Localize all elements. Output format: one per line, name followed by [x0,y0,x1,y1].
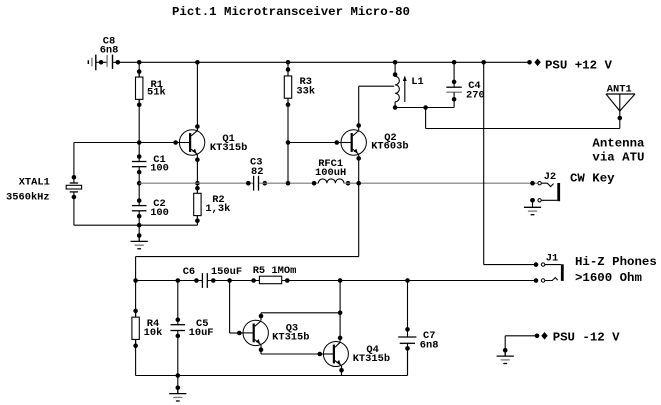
label L1 [411,76,423,88]
capacitor C4 [446,87,462,107]
wire mid line left [139,182,253,184]
label Q3 [272,323,309,344]
label C7 [420,330,439,351]
wire R3 to Q2 base node [287,98,289,183]
junction Q1em-mid [195,181,200,186]
capacitor C7 [398,337,416,376]
wire Q3 collector [259,313,340,321]
svg-text:6n8: 6n8 [100,45,119,57]
connector J1 [534,262,564,283]
wire Q2em to audio top [136,257,359,318]
resistor R2 [194,186,201,223]
ground under C2 [131,233,148,249]
svg-text:100: 100 [150,163,169,175]
wire L1 bottom to C4 [395,105,454,110]
label R3 [296,76,315,98]
wire Q2 collector to L1 tap [356,86,394,130]
wire mid to R2 [196,183,198,193]
resistor R1 [136,69,143,107]
wire audio line to Q4 collector [338,281,343,342]
junction C7 branch [405,278,410,283]
svg-text:C6: C6 [183,266,195,278]
label ANT1 [607,84,632,96]
crystal XTAL1 [66,175,81,225]
label R5 1MOm [253,265,297,277]
svg-text:L1: L1 [411,76,423,88]
wire C1-C2 [138,167,140,206]
label RFC1 [315,158,346,179]
junction R4-audio line [133,278,138,283]
capacitor C6 [194,273,216,288]
transistor Q4 [323,342,348,367]
svg-text:via ATU: via ATU [592,151,644,165]
svg-text:Pict.1 Microtransceiver Micro-: Pict.1 Microtransceiver Micro-80 [172,5,410,19]
svg-text:3560kHz: 3560kHz [6,192,50,204]
wire audio line left [136,280,203,282]
svg-text:1,3k: 1,3k [205,203,230,215]
transistor Q1 [179,130,204,155]
wire C2 to ground [138,211,140,241]
wire +12V rail [113,61,529,63]
ground bottom [169,385,186,401]
svg-text:KT315b: KT315b [272,332,309,344]
label Antenna via ATU [592,137,645,165]
wire mid line C3-RFC1 [259,182,318,184]
wire rail to C4 [452,62,457,87]
junction R3line-mid [286,181,291,186]
label C5 [189,318,214,339]
junction Q2em-mid [356,181,361,186]
label >1600 Ohm [575,271,642,285]
capacitor C1 [132,154,147,174]
wire R2 to loop [196,216,198,226]
ground under J2 [524,198,541,215]
wire PSU -12V [505,336,535,356]
junction rail-L1 [393,60,398,65]
label J1 [546,252,558,264]
inductor L1 [393,76,400,109]
svg-text:KT315b: KT315b [353,353,390,365]
svg-text:100: 100 [150,207,169,219]
wire bottom right corner [407,348,409,375]
svg-text:J1: J1 [546,252,558,264]
wire Q1 emitter [195,155,200,184]
svg-text:82: 82 [251,166,263,178]
svg-text:10uF: 10uF [189,327,214,339]
wire C7 branch [405,281,410,338]
svg-text:KT315b: KT315b [210,142,247,154]
svg-text:PSU +12 V: PSU +12 V [545,59,612,73]
svg-text:CW Key: CW Key [570,171,615,185]
label C6 [183,266,195,278]
wire rail to L1 [393,62,398,77]
label C8 [100,36,119,57]
title [172,5,410,19]
label C2 [150,198,169,219]
svg-text:Antenna: Antenna [592,137,645,151]
svg-text:270: 270 [466,89,485,101]
wire C6 line to Q3 base [230,281,243,336]
label Q1 [210,133,247,154]
junction rail-J1 feed [481,60,486,65]
label C4 [466,80,485,101]
svg-text:10k: 10k [144,327,163,339]
junction rail-Q1 [195,60,200,65]
resistor R3 [284,67,291,107]
label CW Key [570,171,615,185]
wire rail to R1 [138,62,140,77]
wire R1 to base node [138,99,140,161]
label 150uF [211,266,242,278]
capacitor C3 [246,176,267,191]
svg-text:150uF: 150uF [211,266,242,278]
label J2 [544,171,556,183]
svg-text:PSU -12 V: PSU -12 V [553,330,620,344]
label XTAL1 [6,177,50,204]
junction Q3 base branch [227,278,232,283]
wire rail to R3 [287,62,289,76]
label PSU +12 V [545,59,612,73]
svg-text:KT603b: KT603b [371,141,408,153]
inductor RFC1 [312,179,351,186]
svg-text:51k: 51k [147,87,166,99]
wire C5 branch [177,281,179,325]
svg-text:100uH: 100uH [315,167,346,179]
junction C5 branch [176,278,181,283]
svg-text:33k: 33k [296,85,315,97]
node base junction [137,140,142,145]
junction rail-R3 [286,60,291,65]
wire antenna feed [426,108,620,129]
antenna ANT1 [606,94,635,120]
wire bottom ground stub [177,376,179,394]
label Q4 [353,344,390,365]
svg-text:R5 1MOm: R5 1MOm [253,265,297,277]
capacitor C2 [132,198,147,218]
junction rail-C4 [452,60,457,65]
label R1 [147,79,166,99]
junction C2-loop [137,223,142,228]
wire mid line RFC1-J2 [344,182,538,184]
transistor Q2 [341,130,366,155]
ground under PSU -12V [497,348,514,364]
label C3 [250,157,263,178]
svg-text:6n8: 6n8 [420,339,439,351]
arrow L1 core [403,76,407,103]
svg-text:XTAL1: XTAL1 [19,177,50,189]
junction C1C2-mid [137,181,142,186]
transistor Q3 [243,320,268,345]
wire rail to Q1 collector [195,62,200,131]
resistor R5 [251,276,289,284]
wire rail to J1 tip [484,62,536,264]
label Q2 [371,132,408,153]
wire R4 to bottom [136,339,408,375]
svg-text:>1600 Ohm: >1600 Ohm [575,271,642,285]
label Hi-Z Phones [575,255,657,269]
capacitor C5 [171,317,186,338]
wire Q4 emitter [339,366,344,376]
svg-text:Hi-Z Phones: Hi-Z Phones [575,255,657,269]
wire Q2 emitter [356,155,361,257]
node Q2 base junction [286,140,291,145]
label R2 [205,194,230,215]
label C1 [150,154,169,175]
capacitor C8 [88,55,121,71]
wire audio line right [282,280,536,282]
wire base wire Q1 [139,140,179,145]
terminal PSU +12 V [527,59,541,67]
resistor R4 [132,309,139,348]
junction bottom-ground [176,373,181,378]
terminal PSU -12 V [535,332,548,340]
wire Q3 emitter [259,345,324,356]
label PSU -12 V [553,330,620,344]
wire base to XTAL [74,143,139,184]
svg-text:ANT1: ANT1 [607,84,632,96]
wire XTAL loop bottom [74,224,197,226]
junction Q4 collector branch [338,278,343,283]
svg-text:J2: J2 [544,171,556,183]
label R4 [144,318,163,339]
wire base wire Q2 [288,140,341,145]
wire C5 to bottom [177,331,179,376]
wire audio line mid [207,280,259,282]
connector J2 [530,181,560,203]
junction rail-R1 [137,60,142,65]
